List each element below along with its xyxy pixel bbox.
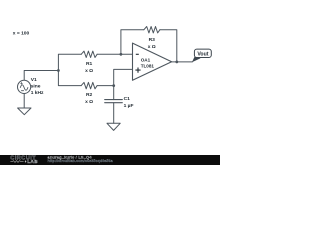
node B junction dot bbox=[112, 84, 115, 87]
op-amp OA1 triangle bbox=[133, 43, 172, 80]
svg-text:http://circuitlab.com/c6e35cqd: http://circuitlab.com/c6e35cqd9a56a bbox=[48, 159, 114, 163]
wire node A up to R1 bbox=[58, 54, 81, 70]
Vout flag pointer bbox=[192, 57, 201, 63]
resistor R3 bbox=[144, 27, 160, 33]
output node junction dot bbox=[175, 61, 178, 64]
wire R3 right to output vertical bbox=[160, 30, 177, 62]
svg-text:LAB: LAB bbox=[27, 159, 38, 165]
svg-text:TL081: TL081 bbox=[141, 63, 155, 68]
ground (below C1) bbox=[107, 123, 120, 130]
node A junction dot bbox=[57, 69, 60, 72]
V1 sine symbol bbox=[20, 85, 28, 90]
wire feedback vertical from inverting node up to R3 bbox=[121, 30, 144, 55]
wire op-amp output to Vout flag bbox=[172, 61, 193, 63]
Vout flag body bbox=[194, 49, 211, 57]
V1 minus tick bbox=[21, 90, 23, 92]
wire R2 right to node B bbox=[97, 85, 114, 87]
wire R1 right to op-amp inverting input bbox=[97, 53, 132, 55]
capacitor C1 bbox=[105, 100, 123, 103]
inverting node junction dot bbox=[120, 53, 123, 56]
wire C1 bottom to ground bbox=[113, 103, 115, 124]
wire V1 top to node A bbox=[24, 71, 58, 81]
svg-text:sine: sine bbox=[31, 84, 41, 90]
svg-text:x = 100: x = 100 bbox=[13, 31, 30, 37]
wire node B up to op-amp non-inverting input bbox=[114, 69, 133, 85]
resistor R1 bbox=[81, 51, 97, 57]
wire V1 bottom to ground bbox=[23, 93, 25, 108]
watermark logo zigzag bbox=[10, 161, 23, 163]
wire node B down to C1 bbox=[113, 86, 115, 100]
svg-text:V1: V1 bbox=[31, 77, 37, 83]
watermark logo lightning bbox=[25, 160, 27, 163]
svg-text:x Ω: x Ω bbox=[85, 68, 93, 74]
svg-text:Vout: Vout bbox=[197, 51, 208, 57]
V1 plus tick bbox=[21, 82, 23, 84]
svg-text:R2: R2 bbox=[86, 92, 93, 98]
svg-text:1 µF: 1 µF bbox=[124, 103, 134, 109]
op-amp plus sign bbox=[135, 68, 140, 73]
svg-text:1 kHz: 1 kHz bbox=[31, 90, 44, 96]
svg-text:OA1: OA1 bbox=[141, 58, 151, 63]
svg-text:R3: R3 bbox=[149, 37, 156, 43]
ground (below V1) bbox=[18, 108, 31, 115]
svg-text:R1: R1 bbox=[86, 61, 93, 67]
svg-text:C1: C1 bbox=[124, 96, 131, 102]
voltage source V1 circle bbox=[18, 80, 31, 93]
resistor R2 bbox=[81, 82, 97, 88]
watermark bar bbox=[0, 155, 220, 165]
svg-text:x Ω: x Ω bbox=[148, 44, 156, 50]
op-amp minus sign bbox=[136, 53, 139, 55]
svg-text:x Ω: x Ω bbox=[85, 99, 93, 105]
wire node A down to R2 bbox=[58, 71, 81, 86]
